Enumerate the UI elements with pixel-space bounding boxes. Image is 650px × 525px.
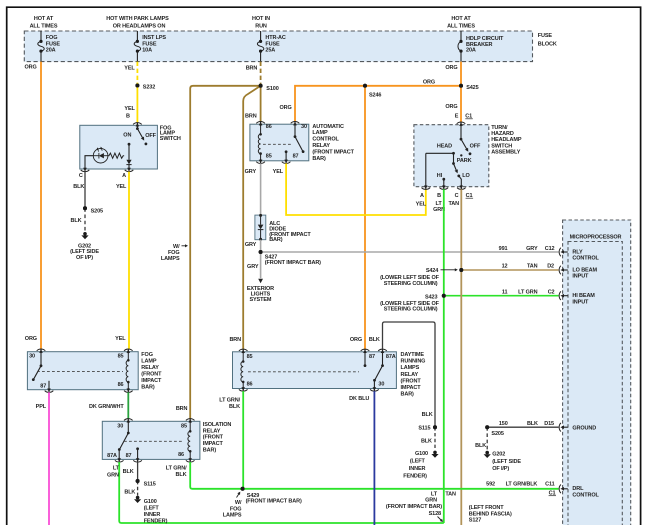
svg-text:(LEFT SIDE: (LEFT SIDE	[492, 459, 521, 465]
svg-text:YEL: YEL	[115, 336, 126, 342]
fog lamp relay box	[27, 352, 138, 390]
svg-text:LT GRN/: LT GRN/	[219, 397, 240, 403]
svg-text:OF I/P): OF I/P)	[492, 466, 509, 472]
svg-text:LO BEAM: LO BEAM	[572, 267, 597, 273]
svg-text:86: 86	[247, 382, 253, 388]
ground G100 (left inner fender)	[403, 451, 438, 480]
svg-text:85: 85	[181, 423, 187, 429]
svg-text:G202: G202	[492, 451, 505, 457]
svg-text:GRN: GRN	[425, 498, 437, 504]
turn hazard headlamp switch box	[414, 125, 489, 187]
label LT GRN	[425, 491, 438, 503]
splice S423	[442, 294, 446, 298]
pin 87 connector	[126, 453, 142, 462]
headlamp switch pivot	[460, 125, 463, 141]
label S424 with arrow	[380, 268, 458, 287]
wire BLK S205 to G202 (dashed)	[84, 208, 86, 231]
svg-text:PARK: PARK	[457, 158, 472, 164]
splice S205	[485, 425, 504, 437]
svg-text:(FRONT IMPACT BAR): (FRONT IMPACT BAR)	[265, 260, 321, 266]
svg-text:INNER: INNER	[409, 466, 426, 472]
svg-text:FUSE: FUSE	[265, 41, 280, 47]
svg-text:ORG: ORG	[423, 79, 435, 85]
svg-text:BRN: BRN	[229, 337, 241, 343]
isolation relay label	[203, 422, 232, 454]
svg-text:RLY: RLY	[572, 249, 583, 255]
label YEL	[416, 201, 427, 207]
svg-text:BLK: BLK	[73, 184, 84, 190]
label YEL	[116, 184, 127, 190]
svg-text:CONTROL: CONTROL	[312, 137, 339, 143]
splice S100	[259, 84, 279, 92]
wire LED to pin C	[85, 156, 93, 169]
svg-text:ORG: ORG	[350, 337, 362, 343]
svg-text:G100: G100	[144, 499, 157, 505]
automatic lamp control relay box	[250, 124, 309, 161]
LED indicator circle	[93, 148, 108, 163]
svg-text:BAR): BAR)	[203, 448, 217, 454]
connector C12 RLY CONTROL	[559, 248, 599, 262]
wire LT GRN/BLK S429 to microprocessor DRL CONTROL	[243, 488, 559, 490]
fog relay switch	[32, 352, 42, 381]
svg-text:RUN: RUN	[255, 24, 267, 30]
pin A connector	[122, 167, 133, 179]
svg-text:BLK: BLK	[123, 469, 134, 475]
connector D2 LO BEAM INPUT	[559, 266, 597, 280]
wire ORG HDLP breaker to S425	[460, 62, 462, 86]
label LT GRN	[433, 201, 445, 213]
svg-text:FUSE: FUSE	[538, 33, 553, 39]
svg-text:BAR): BAR)	[269, 237, 283, 243]
splice S425	[459, 84, 479, 91]
headlamp switch arm to OFF	[461, 139, 468, 152]
label BRN	[176, 406, 188, 412]
wire BLK hook DRL 87A to S115	[383, 322, 436, 427]
svg-text:BRN: BRN	[245, 113, 257, 119]
svg-text:C: C	[455, 193, 459, 199]
isolation relay actuation dashed line	[124, 440, 184, 442]
svg-text:TAN: TAN	[445, 491, 456, 497]
pin 87 connector	[282, 154, 299, 164]
LED arrows	[97, 147, 103, 152]
wire PPL fog relay 87 down	[48, 392, 50, 525]
label E C1	[455, 113, 473, 119]
svg-text:RUNNING: RUNNING	[401, 359, 426, 365]
splice S246 junction dot	[363, 84, 367, 88]
svg-text:LAMP: LAMP	[141, 358, 157, 364]
splice S115 right junction dot	[433, 425, 437, 429]
label YEL	[273, 169, 284, 175]
splice S205	[83, 206, 103, 214]
svg-text:LAMPS: LAMPS	[401, 365, 420, 371]
svg-text:INST LPS: INST LPS	[142, 35, 166, 41]
svg-text:RELAY: RELAY	[401, 372, 419, 378]
wire YEL fog switch A to fog lamp relay 85	[128, 172, 130, 349]
isolation relay switch	[118, 421, 130, 459]
svg-text:BRN: BRN	[176, 406, 188, 412]
dimmer pivot	[452, 153, 455, 165]
wire TAN S424 to microprocessor LO BEAM INPUT	[461, 269, 558, 271]
svg-text:86: 86	[118, 382, 124, 388]
splice S205 right junction dot	[485, 425, 489, 429]
svg-text:YEL: YEL	[416, 201, 427, 207]
label 592 LT GRN/BLK C11	[486, 482, 554, 488]
fog switch arm to OFF	[137, 129, 144, 141]
svg-text:HOT IN: HOT IN	[252, 16, 270, 22]
wire BLK S115 to G100 (dashed)	[434, 427, 436, 450]
svg-text:86: 86	[266, 124, 272, 130]
svg-text:OR HEADLAMPS ON: OR HEADLAMPS ON	[113, 24, 166, 30]
wire LT GRN S423 to microprocessor HI BEAM INPUT	[444, 295, 559, 297]
svg-text:LT GRN/: LT GRN/	[166, 466, 187, 472]
label TAN	[448, 201, 459, 207]
svg-text:LT: LT	[436, 201, 443, 207]
pin 30 connector	[29, 349, 45, 360]
splice S425 junction dot	[459, 84, 463, 88]
svg-text:85: 85	[266, 154, 272, 160]
svg-text:BLK: BLK	[369, 337, 380, 343]
pin 86 connector	[118, 382, 133, 393]
svg-text:BLK: BLK	[229, 404, 240, 410]
label HI	[437, 173, 443, 179]
svg-text:OF I/P): OF I/P)	[76, 255, 93, 261]
pin B connector	[133, 123, 142, 127]
svg-text:20A: 20A	[46, 48, 56, 54]
label PPL	[36, 404, 47, 410]
svg-text:C2: C2	[548, 290, 555, 296]
contact LO dot	[457, 175, 460, 178]
svg-text:25A: 25A	[265, 48, 275, 54]
wire BLK S205 to microprocessor GROUND	[487, 426, 558, 428]
wire DK BLU DRL 30 down	[373, 391, 375, 525]
label S423	[380, 295, 440, 313]
svg-text:DK BLU: DK BLU	[349, 396, 369, 402]
contact HI stub	[442, 178, 445, 187]
svg-text:W/: W/	[235, 500, 242, 506]
svg-text:IMPACT: IMPACT	[401, 385, 422, 391]
label S128 with arrow	[386, 504, 443, 522]
svg-text:BLK: BLK	[124, 489, 135, 495]
svg-text:OFF: OFF	[145, 133, 156, 139]
microprocessor outer box	[563, 220, 631, 525]
pin 30 connector	[117, 419, 132, 430]
label YEL	[124, 65, 135, 71]
svg-text:LT: LT	[113, 466, 120, 472]
wire LT GRN turn hazard B down to S128	[443, 189, 445, 523]
splice S232 junction dot	[135, 84, 139, 88]
header HOT AT ALL TIMES (right)	[447, 16, 475, 30]
label W/ FOG LAMPS with arrow	[223, 492, 242, 519]
svg-text:S115: S115	[144, 482, 156, 488]
ground G202 (left side of I/P)	[70, 232, 99, 261]
svg-text:S205: S205	[491, 431, 503, 437]
svg-text:BLK: BLK	[176, 472, 187, 478]
svg-text:B: B	[437, 193, 441, 199]
splice S115 left junction dot	[136, 479, 140, 483]
svg-text:DRL: DRL	[572, 486, 584, 492]
svg-text:FOG: FOG	[230, 506, 242, 512]
label BLK	[71, 218, 82, 224]
svg-text:FOG: FOG	[46, 35, 58, 41]
splice S115	[136, 479, 156, 488]
fog relay coil	[126, 352, 129, 390]
svg-text:DAYTIME: DAYTIME	[401, 352, 425, 358]
fog relay actuation dashed line	[37, 371, 123, 373]
svg-text:CONTROL: CONTROL	[572, 493, 599, 499]
contact ON dot	[128, 143, 131, 146]
label 12 TAN D2	[502, 264, 554, 270]
label BLK	[123, 469, 134, 475]
ALC diode label	[269, 221, 311, 243]
wire BLK fog switch C to S205	[84, 172, 86, 209]
pin 85 connector	[239, 349, 253, 360]
svg-text:FOG: FOG	[141, 352, 153, 358]
svg-text:592: 592	[486, 482, 495, 488]
splice S429 junction dot	[241, 487, 245, 491]
splice S424 junction dot	[459, 268, 463, 272]
DRL relay coil	[241, 352, 245, 389]
turn hazard switch label	[491, 125, 522, 156]
svg-text:GRN: GRN	[107, 472, 119, 478]
pin 87A connector	[107, 453, 123, 462]
svg-text:YEL: YEL	[124, 65, 135, 71]
connector D15 GROUND	[559, 423, 596, 432]
resistor in fog switch	[108, 153, 124, 158]
ALC relay switch	[294, 124, 305, 153]
contact HEAD line	[426, 152, 455, 155]
label GRY	[247, 264, 259, 270]
svg-text:BRN: BRN	[246, 66, 258, 72]
svg-text:S127: S127	[469, 518, 481, 524]
svg-text:YEL: YEL	[273, 169, 284, 175]
splice S115	[418, 425, 437, 431]
svg-text:INPUT: INPUT	[572, 299, 589, 305]
label 150 BLK D15	[499, 421, 554, 427]
svg-text:RELAY: RELAY	[203, 428, 221, 434]
DRL relay switch	[373, 352, 384, 389]
svg-text:BLK: BLK	[422, 412, 433, 418]
label HEAD	[437, 144, 452, 150]
label DK GRN/WHT	[89, 404, 124, 410]
label BRN	[246, 66, 258, 72]
svg-text:87A: 87A	[386, 354, 396, 360]
DRL relay 87 stub	[364, 352, 367, 367]
label ORG	[25, 336, 37, 342]
label GRY	[245, 169, 257, 175]
svg-text:87: 87	[293, 154, 299, 160]
svg-text:OFF: OFF	[470, 144, 481, 150]
wire ORG S425 to turn hazard switch pin E	[460, 86, 462, 123]
label BRN	[229, 337, 241, 343]
label YEL	[115, 336, 126, 342]
svg-text:LT GRN/BLK: LT GRN/BLK	[506, 482, 538, 488]
label C1	[466, 193, 474, 199]
svg-text:30: 30	[301, 124, 307, 130]
svg-text:AUTOMATIC: AUTOMATIC	[312, 124, 344, 130]
svg-text:GROUND: GROUND	[572, 425, 596, 431]
svg-text:B: B	[126, 113, 130, 119]
ALC relay label	[312, 124, 354, 162]
svg-text:LAMPS: LAMPS	[161, 256, 180, 262]
isolation relay box	[102, 421, 200, 459]
svg-text:A: A	[420, 193, 424, 199]
svg-text:ORG: ORG	[25, 336, 37, 342]
svg-text:87A: 87A	[107, 453, 117, 459]
svg-text:INPUT: INPUT	[572, 274, 589, 280]
label W/ FOG LAMPS with arrow	[161, 244, 188, 262]
fuse FOG FUSE 20A	[38, 31, 61, 62]
pin 87A connector	[378, 349, 396, 360]
svg-text:BLK: BLK	[421, 438, 432, 444]
label BRN	[245, 113, 257, 119]
wire BLK isolation relay 87 to S115	[137, 462, 139, 481]
svg-text:30: 30	[378, 382, 384, 388]
label YEL B	[124, 106, 135, 119]
daytime running lamps relay label	[401, 352, 426, 398]
wire YEL S232 to fog lamp switch pin B	[136, 86, 138, 123]
splice S427	[259, 250, 322, 266]
svg-text:HEADLAMP: HEADLAMP	[491, 137, 522, 143]
svg-text:86: 86	[178, 452, 184, 458]
svg-text:HTR-AC: HTR-AC	[265, 35, 286, 41]
svg-text:TAN: TAN	[448, 201, 459, 207]
label ORG	[445, 104, 457, 110]
pin 87 connector	[361, 349, 375, 360]
svg-text:C11: C11	[545, 482, 554, 488]
svg-text:(FRONT: (FRONT	[203, 435, 224, 441]
isolation relay coil	[188, 421, 192, 459]
svg-text:HEAD: HEAD	[437, 144, 452, 150]
svg-text:HOT AT: HOT AT	[451, 16, 471, 22]
svg-text:E: E	[455, 113, 459, 119]
svg-text:YEL: YEL	[124, 106, 135, 112]
pin 86 connector	[178, 452, 194, 462]
svg-text:ASSEMBLY: ASSEMBLY	[491, 150, 521, 156]
label LT GRN/BLK	[219, 397, 240, 410]
wire BRN fuse HTR-AC to S100 (dashed)	[260, 62, 262, 86]
label ORG	[25, 64, 37, 70]
pin 87 connector	[40, 384, 53, 393]
wire BRN S100 branch to isolation relay 85 (w/ fog lamps)	[190, 86, 258, 419]
svg-text:30: 30	[117, 423, 123, 429]
svg-text:MICROPROCESSOR: MICROPROCESSOR	[570, 235, 622, 241]
label LT GRN	[107, 466, 120, 479]
svg-text:ORG: ORG	[445, 65, 457, 71]
microprocessor label	[570, 235, 622, 241]
svg-text:S232: S232	[143, 85, 155, 91]
svg-text:(FRONT: (FRONT	[141, 371, 162, 377]
svg-text:PPL: PPL	[36, 404, 47, 410]
label BLK	[73, 184, 84, 190]
wire YEL ALC relay 87 to turn hazard switch pin A	[286, 163, 426, 215]
pin 85 connector	[118, 349, 133, 360]
svg-text:HOT AT: HOT AT	[34, 16, 54, 22]
svg-text:991: 991	[499, 246, 508, 252]
svg-text:BAR): BAR)	[141, 384, 155, 390]
svg-text:10A: 10A	[142, 48, 152, 54]
fog switch pivot stub	[136, 125, 139, 130]
label 991 GRY C12	[499, 246, 555, 252]
fuse INST LPS FUSE 10A	[134, 31, 166, 62]
svg-text:GRY: GRY	[247, 264, 259, 270]
ground G202 (left side of I/P)	[484, 451, 522, 472]
microprocessor inner box	[568, 242, 622, 525]
wire TAN turn hazard C down to S127	[460, 189, 462, 525]
label ORG	[423, 79, 435, 85]
pin 86 connector	[256, 122, 271, 130]
label BLK	[421, 438, 432, 444]
splice S427 junction dot	[259, 250, 263, 254]
pin B connector	[437, 185, 448, 199]
label BLK	[475, 443, 486, 449]
connector C11 DRL CONTROL	[559, 485, 599, 499]
fog lamp switch box	[80, 125, 158, 169]
svg-text:ALL TIMES: ALL TIMES	[30, 24, 58, 30]
svg-text:85: 85	[118, 354, 124, 360]
wire ORG S425 to ALC relay 30 (horizontal)	[295, 86, 461, 122]
svg-text:ORG: ORG	[445, 104, 457, 110]
pin C connector	[455, 185, 466, 199]
label OFF	[470, 144, 481, 150]
pin 85 connector	[256, 154, 271, 164]
svg-text:HI BEAM: HI BEAM	[572, 293, 595, 299]
svg-text:SWITCH: SWITCH	[160, 136, 181, 142]
svg-text:GRY: GRY	[245, 169, 257, 175]
splice S424	[459, 268, 463, 272]
pin 30 connector	[370, 382, 384, 392]
svg-text:HI: HI	[437, 173, 443, 179]
pin E connector	[457, 122, 466, 126]
wire HEAD to pin A	[425, 153, 427, 186]
splice S423 junction dot	[442, 294, 446, 298]
svg-text:BLK: BLK	[475, 443, 486, 449]
svg-text:20A: 20A	[466, 48, 476, 54]
dimmer arm to LO	[454, 164, 458, 174]
svg-text:FENDER): FENDER)	[144, 518, 168, 524]
svg-text:FUSE: FUSE	[142, 41, 157, 47]
label ORG	[350, 337, 362, 343]
svg-text:HOT WITH PARK LAMPS: HOT WITH PARK LAMPS	[106, 16, 169, 22]
wire BLK S205 to G202 (dashed)	[486, 427, 488, 450]
svg-text:BLOCK: BLOCK	[538, 42, 557, 48]
svg-text:GRY: GRY	[526, 246, 538, 252]
header HOT AT ALL TIMES (left)	[30, 16, 58, 30]
svg-text:S100: S100	[266, 86, 278, 92]
svg-text:D15: D15	[544, 421, 554, 427]
svg-text:ORG: ORG	[280, 105, 292, 111]
svg-text:ISOLATION: ISOLATION	[203, 422, 232, 428]
svg-text:BLK: BLK	[71, 218, 82, 224]
svg-text:TAN: TAN	[527, 264, 538, 270]
label 11 LT GRN C2	[502, 290, 555, 296]
svg-text:S425: S425	[466, 85, 478, 91]
wire BRN S100 branch to daytime running lamps relay 85	[243, 86, 260, 350]
svg-text:LAMPS: LAMPS	[223, 513, 242, 519]
wire GRY ALC relay 85 to ALC diode	[260, 163, 262, 215]
header HOT WITH PARK LAMPS OR HEADLAMPS ON	[106, 16, 169, 30]
label BLK	[124, 489, 135, 495]
label DK BLU	[349, 396, 369, 402]
svg-text:BAR): BAR)	[312, 156, 326, 162]
svg-text:150: 150	[499, 421, 508, 427]
isolation relay 87 stub	[136, 447, 139, 459]
ground G100 (left inner fender)	[134, 496, 168, 524]
svg-text:LT GRN: LT GRN	[518, 290, 537, 296]
pin 30 connector	[291, 122, 307, 130]
pin 86 connector	[239, 382, 253, 392]
svg-text:C: C	[79, 173, 83, 179]
svg-text:YEL: YEL	[116, 184, 127, 190]
